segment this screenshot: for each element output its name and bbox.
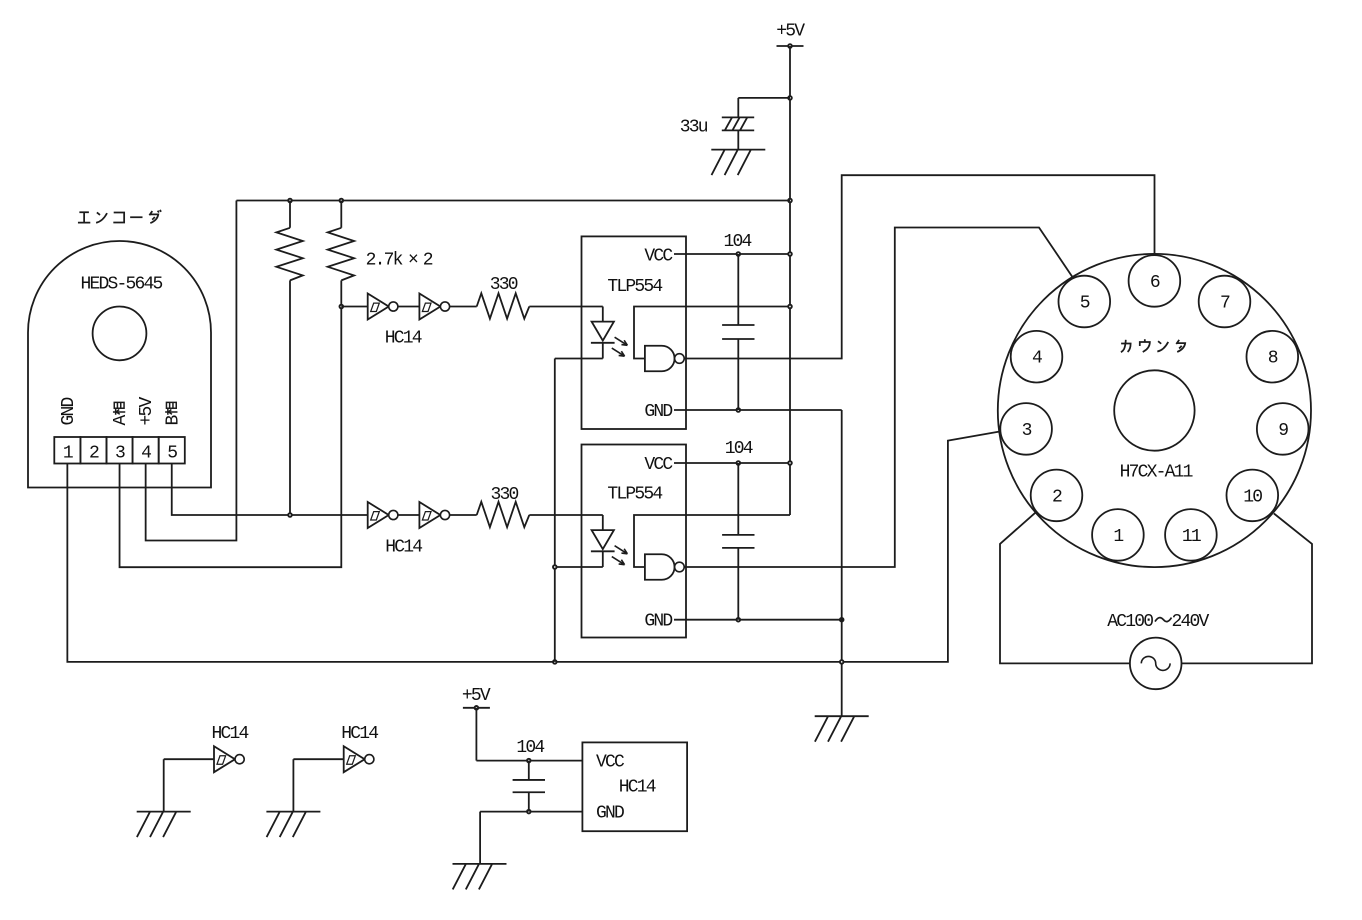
svg-text:+5V: +5V (462, 686, 491, 706)
svg-text:GND: GND (596, 804, 624, 824)
svg-text:HC14: HC14 (212, 724, 249, 744)
svg-text:1: 1 (1113, 527, 1123, 547)
svg-text:VCC: VCC (644, 247, 673, 267)
svg-text:AC100: AC100 (1107, 612, 1153, 632)
svg-text:HC14: HC14 (385, 538, 422, 558)
svg-text:6: 6 (1150, 273, 1160, 293)
svg-text:2: 2 (89, 444, 99, 464)
svg-text:240V: 240V (1172, 612, 1210, 632)
svg-text:TLP554: TLP554 (607, 485, 662, 505)
svg-text:+5V: +5V (137, 396, 157, 425)
svg-text:HC14: HC14 (385, 329, 422, 349)
svg-text:2: 2 (1052, 487, 1062, 507)
svg-text:9: 9 (1278, 421, 1288, 441)
svg-text:GND: GND (59, 397, 79, 425)
svg-text:330: 330 (491, 485, 519, 505)
svg-text:5: 5 (1080, 293, 1090, 313)
svg-text:8: 8 (1268, 349, 1278, 369)
svg-text:4: 4 (141, 444, 151, 464)
svg-text:+5V: +5V (776, 22, 805, 42)
svg-text:HC14: HC14 (341, 724, 378, 744)
svg-text:GND: GND (644, 402, 672, 422)
svg-text:7: 7 (1220, 293, 1230, 313)
svg-text:104: 104 (725, 439, 753, 459)
svg-text:3: 3 (1022, 421, 1032, 441)
svg-text:GND: GND (644, 612, 672, 632)
svg-text:2: 2 (423, 251, 433, 271)
svg-text:HEDS-5645: HEDS-5645 (81, 274, 163, 294)
svg-text:3: 3 (115, 444, 125, 464)
svg-text:11: 11 (1182, 527, 1201, 547)
svg-text:104: 104 (724, 232, 752, 252)
svg-text:104: 104 (516, 738, 544, 758)
svg-text:HC14: HC14 (619, 778, 656, 798)
svg-text:1: 1 (63, 444, 73, 464)
svg-text:TLP554: TLP554 (607, 277, 662, 297)
svg-text:VCC: VCC (644, 455, 673, 475)
svg-text:2.7k: 2.7k (366, 251, 403, 271)
svg-text:33u: 33u (680, 117, 708, 137)
svg-text:×: × (408, 251, 418, 271)
svg-text:5: 5 (167, 444, 177, 464)
svg-text:VCC: VCC (596, 753, 625, 773)
svg-text:10: 10 (1243, 487, 1262, 507)
svg-text:H7CX-A11: H7CX-A11 (1120, 463, 1193, 483)
svg-text:330: 330 (490, 275, 518, 295)
svg-text:4: 4 (1032, 349, 1042, 369)
